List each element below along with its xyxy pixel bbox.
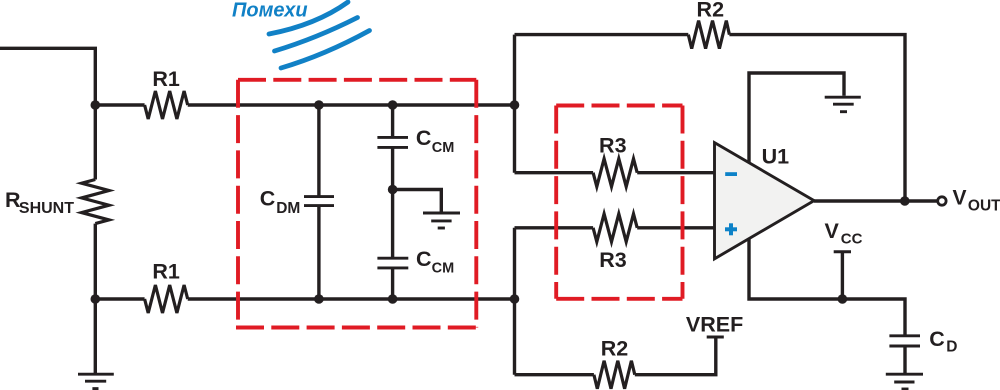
svg-text:R1: R1 xyxy=(152,260,180,284)
svg-text:R3: R3 xyxy=(599,134,627,158)
svg-text:VREF: VREF xyxy=(686,313,743,337)
svg-text:C: C xyxy=(416,126,432,150)
svg-text:R2: R2 xyxy=(601,337,629,361)
svg-text:Помехи: Помехи xyxy=(232,0,308,21)
svg-text:C: C xyxy=(929,327,945,351)
svg-text:C: C xyxy=(416,247,432,271)
svg-text:R1: R1 xyxy=(152,67,180,91)
svg-text:CM: CM xyxy=(432,260,455,276)
svg-text:V: V xyxy=(953,187,967,210)
svg-text:R3: R3 xyxy=(599,248,627,272)
svg-text:R2: R2 xyxy=(697,0,725,22)
svg-text:CM: CM xyxy=(432,140,455,156)
svg-text:D: D xyxy=(946,338,957,355)
svg-text:U1: U1 xyxy=(762,144,790,168)
svg-text:C: C xyxy=(260,187,276,211)
svg-text:CC: CC xyxy=(841,230,863,247)
svg-text:OUT: OUT xyxy=(968,198,1000,215)
svg-text:SHUNT: SHUNT xyxy=(19,200,74,217)
svg-text:DM: DM xyxy=(276,200,300,217)
svg-text:V: V xyxy=(825,219,840,243)
